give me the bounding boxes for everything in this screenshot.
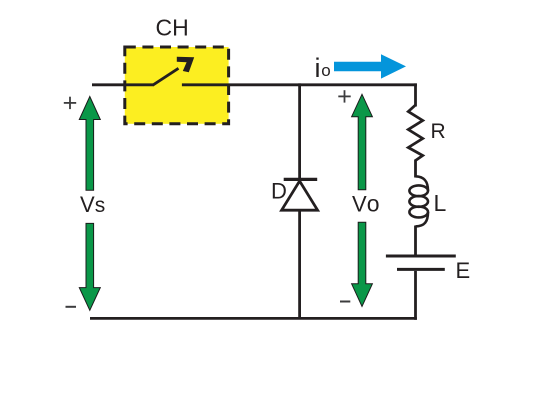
svg-text:Vs: Vs	[80, 192, 105, 217]
svg-text:R: R	[431, 120, 446, 143]
plus sign (Vs)	[64, 97, 76, 109]
source voltage arrow Vs (upper half, points up)	[79, 97, 100, 191]
diode D triangle	[282, 181, 318, 210]
output voltage arrow Vo (lower half, points down)	[352, 222, 373, 306]
wire: bottom rail	[90, 317, 417, 320]
wire: diode branch top	[298, 83, 301, 180]
wire: between L and E	[414, 226, 417, 255]
svg-text:CH: CH	[156, 14, 189, 40]
svg-text:i: i	[315, 53, 321, 83]
svg-text:Vo: Vo	[352, 191, 379, 217]
chopper switch enclosure (yellow dashed box)	[125, 47, 229, 124]
svg-text:D: D	[271, 178, 287, 203]
svg-text:L: L	[434, 190, 447, 216]
minus sign (Vo)	[340, 301, 350, 303]
wire: between R and L	[414, 160, 417, 178]
resistor R	[408, 105, 422, 161]
switch CH blade arrowhead	[177, 57, 194, 73]
inductor L (coil)	[409, 176, 428, 226]
svg-text:E: E	[456, 258, 471, 283]
wire: battery to bottom rail	[414, 271, 417, 320]
battery E positive plate (long)	[386, 254, 456, 257]
svg-text:o: o	[321, 61, 330, 80]
output current arrow io (blue)	[334, 54, 406, 78]
source voltage arrow Vs (lower half, points down)	[79, 223, 100, 310]
wire: top-left from source to switch pivot	[92, 83, 153, 86]
output voltage arrow Vo (upper half, points up)	[352, 94, 373, 190]
wire: top rail from switch right contact to right branch	[182, 83, 417, 86]
wire: right branch top (to resistor)	[414, 83, 417, 106]
plus sign (Vo)	[338, 90, 350, 102]
diode D cathode bar	[284, 178, 318, 181]
wire: diode branch bottom	[298, 210, 301, 319]
switch CH blade	[153, 68, 179, 85]
battery E negative plate (short)	[397, 268, 445, 271]
minus sign (Vs)	[66, 306, 77, 308]
